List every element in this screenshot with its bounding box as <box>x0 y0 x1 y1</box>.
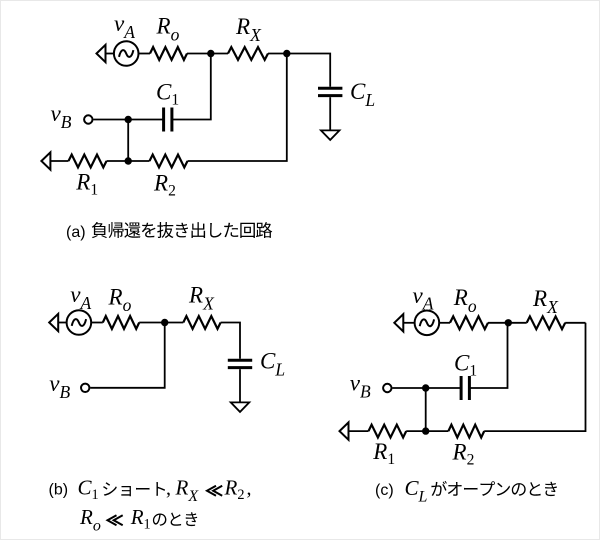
wire <box>329 97 331 130</box>
svg-text:,: , <box>247 478 252 500</box>
node E (b) <box>161 319 168 326</box>
wire <box>93 119 128 121</box>
wire <box>565 322 585 324</box>
node H (c) <box>422 427 429 434</box>
wire <box>403 322 414 324</box>
wire <box>128 119 163 121</box>
wire <box>425 388 427 431</box>
caption (b) much-less-than 2 <box>108 515 123 525</box>
svg-text:,: , <box>166 478 171 500</box>
wire <box>58 322 66 324</box>
svg-text:(b): (b) <box>49 482 69 499</box>
resistor Ro (c) <box>450 316 488 329</box>
wire <box>239 369 241 402</box>
resistor RX (a) <box>228 47 268 60</box>
caption (b) "no toki" japanese <box>153 512 197 526</box>
wire <box>91 322 103 324</box>
wire <box>106 53 114 55</box>
wire <box>287 54 330 87</box>
svg-text:(a): (a) <box>66 224 86 241</box>
resistor R2 (a) <box>150 155 188 168</box>
resistor RX (b) <box>183 316 220 329</box>
node D (a) <box>125 157 132 164</box>
voltage source vA (c) <box>415 311 440 336</box>
caption (b) "short" japanese <box>103 482 165 496</box>
node B (a) <box>283 50 290 57</box>
resistor R2 (c) <box>448 425 484 438</box>
wire <box>127 120 129 162</box>
ground-return arrow (c) top <box>394 314 403 331</box>
caption (a) japanese text <box>92 222 273 238</box>
wire <box>187 53 211 55</box>
wire <box>128 160 149 162</box>
wire <box>426 430 449 432</box>
wire <box>508 322 526 324</box>
capacitor CL (a) <box>318 87 342 90</box>
wire <box>349 430 369 432</box>
node F (c) <box>505 319 512 326</box>
resistor RX (c) <box>527 316 566 329</box>
wire <box>439 322 450 324</box>
terminal vB (c) <box>383 384 391 392</box>
node A (a) <box>207 50 214 57</box>
wire <box>426 387 461 389</box>
node C (a) <box>125 116 132 123</box>
capacitor C1 (c) <box>460 376 463 400</box>
ground-return arrow (b) <box>49 314 58 331</box>
wire <box>484 323 585 431</box>
ground (b) <box>231 402 250 412</box>
ground (a) <box>321 130 340 140</box>
wire <box>139 322 165 324</box>
wire <box>392 387 425 389</box>
wire <box>165 322 184 324</box>
caption (c) japanese text <box>431 481 556 496</box>
ground-return arrow (c) bottom <box>340 422 349 439</box>
voltage source vA (a) <box>114 41 139 66</box>
wire <box>221 323 240 359</box>
caption (b) much-less-than <box>207 486 222 496</box>
wire <box>188 54 287 162</box>
terminal vB (b) <box>81 384 89 392</box>
resistor Ro (a) <box>150 47 187 60</box>
wire <box>90 323 165 388</box>
wire <box>107 160 129 162</box>
wire <box>406 430 426 432</box>
wire <box>139 53 151 55</box>
wire <box>50 160 68 162</box>
ground-return arrow (a) bottom <box>41 152 50 169</box>
wire <box>488 322 508 324</box>
capacitor CL (b) <box>228 359 252 362</box>
node G (c) <box>422 384 429 391</box>
wire <box>172 54 211 120</box>
ground-return arrow (a) top <box>97 45 106 62</box>
resistor Ro (b) <box>103 316 139 329</box>
resistor R1 (a) <box>69 155 107 168</box>
resistor R1 (c) <box>369 425 407 438</box>
wire <box>268 53 287 55</box>
capacitor C1 (a) <box>162 108 165 132</box>
wire <box>469 323 507 388</box>
svg-text:(c): (c) <box>375 482 394 499</box>
wire <box>211 53 228 55</box>
terminal vB (a) <box>84 115 92 123</box>
voltage source vA (b) <box>67 310 92 335</box>
